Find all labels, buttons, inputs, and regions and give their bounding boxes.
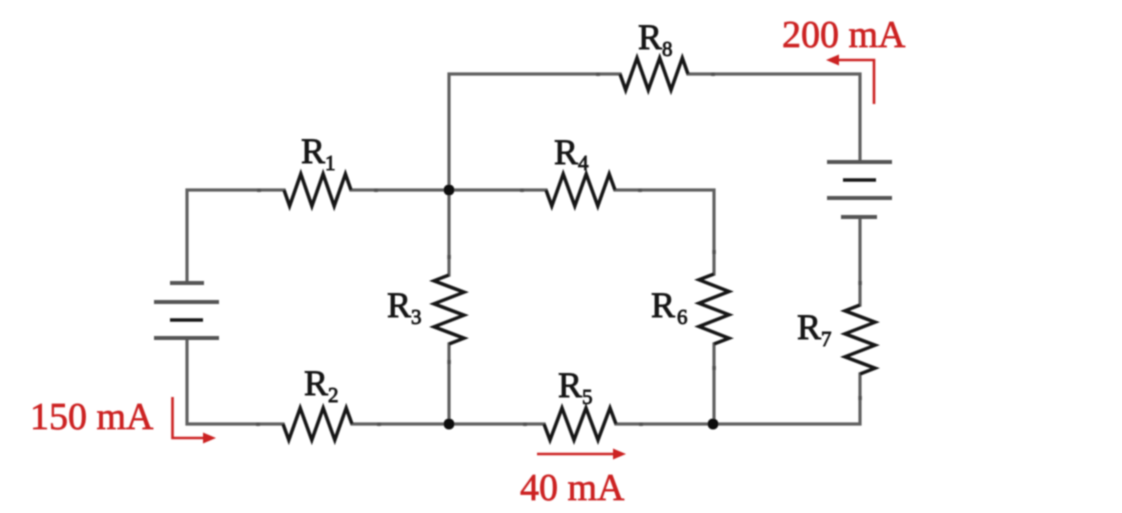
wire joint tick right of R2	[377, 423, 381, 427]
svg-text:40 mA: 40 mA	[520, 467, 625, 509]
svg-text:R8: R8	[638, 17, 673, 61]
wire joint tick above R6	[712, 250, 716, 254]
wire left column top to battery	[187, 190, 284, 283]
wire joint tick left of R4	[520, 189, 524, 193]
svg-text:R6: R6	[651, 285, 688, 329]
svg-text:150 mA: 150 mA	[30, 396, 154, 438]
node at center mid row	[444, 185, 455, 196]
wire top from R8 to right column	[688, 74, 860, 160]
arrow elbow at 150 mA	[173, 397, 207, 438]
svg-text:R3: R3	[387, 285, 422, 329]
wire bottom from R5 to node	[616, 422, 713, 425]
wire mid row R1 to center node	[351, 188, 449, 191]
resistor R1	[284, 174, 351, 206]
svg-text:R1: R1	[301, 131, 336, 175]
resistor R8	[620, 58, 688, 90]
wire joint tick left of R2	[256, 423, 260, 427]
wire joint tick above R7	[858, 281, 862, 285]
battery left	[154, 283, 219, 338]
wire center column R3 to bottom node	[447, 344, 450, 424]
wire joint tick left of R1	[257, 189, 261, 193]
wire joint tick left of R5	[523, 423, 527, 427]
arrowhead 150 mA	[203, 433, 216, 444]
wire joint tick right of R5	[639, 423, 643, 427]
wire center column node to R3	[447, 190, 450, 275]
resistor R3	[434, 275, 464, 344]
arrowhead 40 mA	[613, 449, 626, 460]
battery right	[827, 162, 892, 217]
wire right column battery to R7	[858, 219, 861, 305]
arrow at 40 mA	[537, 453, 615, 456]
svg-text:R7: R7	[797, 307, 832, 351]
svg-text:R4: R4	[554, 132, 589, 175]
wire joint tick below R7	[858, 396, 862, 400]
wire joint tick above R3	[447, 255, 451, 259]
wire right column R7 to bottom	[713, 374, 860, 424]
wire joint tick below R3	[447, 360, 451, 364]
svg-text:R5: R5	[558, 365, 593, 409]
wire joint tick right of R1	[374, 189, 378, 193]
wire top from center column to R8	[449, 74, 620, 190]
arrow elbow at 200 mA	[838, 60, 874, 104]
svg-text:R2: R2	[304, 363, 339, 407]
wire bottom from center node to R5	[449, 422, 544, 425]
resistor R6	[699, 274, 729, 344]
resistor R2	[283, 408, 352, 440]
node at right bottom	[708, 419, 719, 430]
resistor R7	[845, 305, 875, 374]
wire bottom-left from left column to R2	[187, 340, 283, 424]
arrowhead 200 mA	[826, 55, 839, 66]
resistor R5	[544, 408, 616, 440]
wire joint tick below R6	[712, 366, 716, 370]
resistor R4	[546, 174, 615, 206]
node at center bottom	[444, 419, 455, 430]
wire R6 to bottom node	[712, 344, 715, 424]
wire joint tick right of R4	[638, 189, 642, 193]
wire mid row center node to R4	[449, 188, 546, 191]
wire joint tick right of R8	[711, 73, 715, 77]
wire mid row R4 to right corner and down to R6	[615, 190, 714, 274]
wire joint tick left of R8	[596, 73, 600, 77]
wire bottom from R2 to center node	[352, 422, 449, 425]
svg-text:200 mA: 200 mA	[782, 14, 906, 56]
